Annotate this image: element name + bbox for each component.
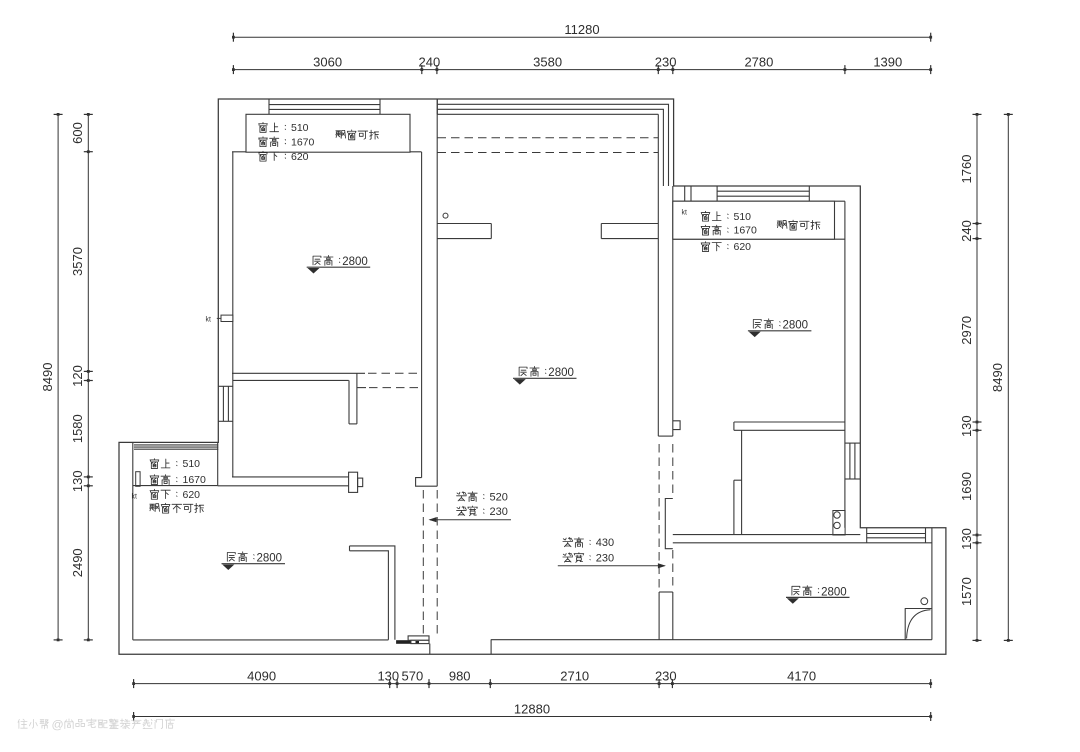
svg-text:230: 230 (655, 668, 677, 683)
svg-text:240: 240 (959, 220, 974, 242)
svg-text:2710: 2710 (560, 668, 589, 683)
kt pipe living (136, 472, 140, 487)
bay sill top-right bedroom (673, 238, 845, 240)
level mark bedroom1 2800 (307, 255, 371, 273)
svg-text:kt: kt (206, 317, 212, 324)
svg-text:570: 570 (402, 668, 424, 683)
level mark hall 2800 (513, 366, 577, 384)
wall living east L-shape (350, 546, 395, 640)
svg-text:230: 230 (596, 553, 614, 565)
dimension top overall 11280 (232, 22, 932, 42)
svg-text:3580: 3580 (533, 54, 562, 69)
wall closet east stub (349, 373, 357, 424)
svg-text:120: 120 (70, 365, 85, 387)
wall kitchen north (734, 422, 845, 430)
svg-text:1580: 1580 (70, 414, 85, 443)
wall east inner face (844, 201, 846, 528)
text bay not removable living (150, 503, 204, 513)
svg-text:510: 510 (291, 122, 309, 134)
label box top-right bay window (673, 201, 835, 239)
svg-text:8490: 8490 (40, 363, 55, 392)
window W6 kitchen east (845, 443, 860, 479)
entry door recess (430, 640, 491, 655)
wall balcony south (437, 224, 658, 239)
text bay removable top-right (777, 220, 820, 230)
svg-text:1390: 1390 (873, 54, 902, 69)
text kt top-right (682, 209, 688, 216)
level mark bedroom3 2800 (786, 586, 850, 604)
svg-text:620: 620 (183, 489, 201, 501)
dimension bottom overall 12880 (132, 701, 932, 721)
svg-text:kt: kt (132, 494, 138, 501)
svg-text:130: 130 (70, 470, 85, 492)
dimension right overall 8490 (990, 113, 1013, 642)
wall kitchen west (734, 430, 742, 534)
svg-text:230: 230 (655, 54, 677, 69)
svg-text:240: 240 (419, 54, 441, 69)
wall stub hall east middle (665, 499, 673, 549)
beam note 430x230 kitchen (558, 537, 666, 568)
dimension left column 600 3570 120 1580 130 2490 (70, 113, 93, 641)
svg-text:130: 130 (959, 415, 974, 437)
svg-text:11280: 11280 (564, 22, 599, 37)
svg-text:4170: 4170 (787, 668, 816, 683)
label box top-left bay window (246, 114, 410, 152)
svg-text:@: @ (52, 717, 64, 731)
svg-text:620: 620 (291, 151, 309, 163)
gas stove kitchen (833, 511, 845, 536)
window W3 top-right bedroom bay (717, 186, 809, 201)
svg-text:12880: 12880 (514, 701, 550, 716)
svg-text:620: 620 (734, 241, 752, 253)
svg-text:2490: 2490 (70, 548, 85, 577)
svg-text:1670: 1670 (734, 225, 758, 237)
text window info top-left (259, 122, 315, 163)
wall stub at dashed wall north (673, 421, 680, 430)
level mark bedroom2 2800 (748, 319, 812, 337)
svg-text:520: 520 (490, 491, 508, 503)
svg-text:980: 980 (449, 668, 471, 683)
svg-text:230: 230 (490, 506, 508, 518)
wall top-right bay inner line (673, 200, 845, 202)
svg-text:2970: 2970 (959, 316, 974, 345)
watermark (18, 717, 175, 731)
dimension top row 3060 240 3580 230 2780 1390 (232, 54, 932, 74)
beam note 520x230 hall (429, 491, 512, 522)
wall closet south / living north (218, 477, 349, 486)
entry sliding door (396, 636, 429, 644)
dimension right column 1760 240 2970 130 1690 130 1570 (959, 113, 982, 642)
wall dashed removed hall east (659, 444, 673, 590)
bay window living not-removable (133, 442, 219, 485)
kt pipe top-right bedroom (685, 186, 691, 201)
wall hall west dashed removed part (423, 490, 437, 637)
window W4 closet west (218, 386, 233, 421)
window W7 bedroom3 north (867, 528, 926, 543)
svg-text:510: 510 (183, 458, 201, 470)
svg-text:1670: 1670 (183, 474, 207, 486)
svg-text:130: 130 (959, 528, 974, 550)
svg-text:2800: 2800 (342, 256, 368, 268)
svg-text:1570: 1570 (959, 577, 974, 606)
outer wall outline (119, 99, 946, 654)
wall south inner face (133, 639, 932, 641)
wall top inner face balcony (437, 113, 658, 115)
wall left inner face upper (232, 152, 234, 477)
svg-text:2800: 2800 (548, 367, 574, 379)
svg-text:kt: kt (682, 209, 688, 216)
level mark living 2800 (222, 552, 286, 570)
svg-text:1690: 1690 (959, 472, 974, 501)
wall between top-left bedroom and closet (232, 373, 422, 387)
door bedroom3 (905, 598, 932, 640)
svg-text:2800: 2800 (257, 553, 283, 565)
kt pipe top-left bedroom west wall (217, 315, 233, 321)
window W1 top-left bedroom bay (269, 99, 380, 114)
wall left inner face lower (132, 442, 134, 640)
wall top-right bedroom west (658, 186, 673, 436)
text kt living (132, 494, 138, 501)
wall bedroom3 east inner face (931, 528, 933, 640)
svg-text:4090: 4090 (247, 668, 276, 683)
svg-text:600: 600 (70, 122, 85, 144)
bay sill top-left bedroom (232, 151, 422, 153)
svg-text:2800: 2800 (821, 586, 847, 598)
column cross living north-east (349, 472, 363, 492)
svg-text:2780: 2780 (744, 54, 773, 69)
svg-text:2800: 2800 (783, 320, 809, 332)
svg-text:510: 510 (734, 211, 752, 223)
svg-text:430: 430 (596, 537, 614, 549)
text window info top-right (701, 211, 757, 253)
svg-text:3060: 3060 (313, 54, 342, 69)
svg-text:1760: 1760 (959, 155, 974, 184)
balcony beam dashed lines (438, 138, 659, 153)
dimension left overall 8490 (40, 113, 63, 641)
node balcony drain circle (443, 213, 448, 218)
svg-text:1670: 1670 (291, 136, 315, 148)
dimension bottom row 4090 130 570 980 2710 230 4170 (132, 668, 932, 688)
svg-text:8490: 8490 (990, 363, 1005, 392)
wall hall west (416, 99, 438, 486)
svg-text:3570: 3570 (70, 247, 85, 276)
svg-text:130: 130 (377, 668, 399, 683)
text window info living bay (150, 458, 206, 501)
text bay removable top-left (336, 130, 379, 140)
wall kitchen south (673, 535, 932, 543)
wall hall east lower solid (659, 592, 673, 640)
balcony corner window (437, 99, 668, 186)
text kt top-left (206, 317, 212, 324)
